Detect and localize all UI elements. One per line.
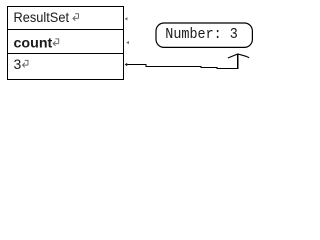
svg-text:Number: 3: Number: 3 <box>165 26 238 43</box>
wire row separator 1 <box>8 29 124 31</box>
wire row separator 2 <box>8 53 124 55</box>
svg-text:ResultSet: ResultSet <box>14 9 70 25</box>
svg-text:3: 3 <box>14 56 22 72</box>
tiny end mark right of row 2 <box>126 41 129 44</box>
return mark row 1 <box>73 14 79 21</box>
wire connector vertical <box>237 54 239 69</box>
arrowhead pointing left at table <box>125 63 128 67</box>
pill Number: 3 <box>156 23 252 47</box>
table outer border <box>8 7 124 80</box>
tiny end mark right of row 1 <box>125 17 128 20</box>
svg-text:count: count <box>14 35 53 51</box>
wire connector horizontal (hand-drawn, drifting down in steps) <box>127 65 238 69</box>
return mark row 2 <box>53 39 59 46</box>
arrowhead pointing up at pill (hand-drawn barbs) <box>228 54 249 58</box>
return mark row 3 <box>23 60 29 67</box>
